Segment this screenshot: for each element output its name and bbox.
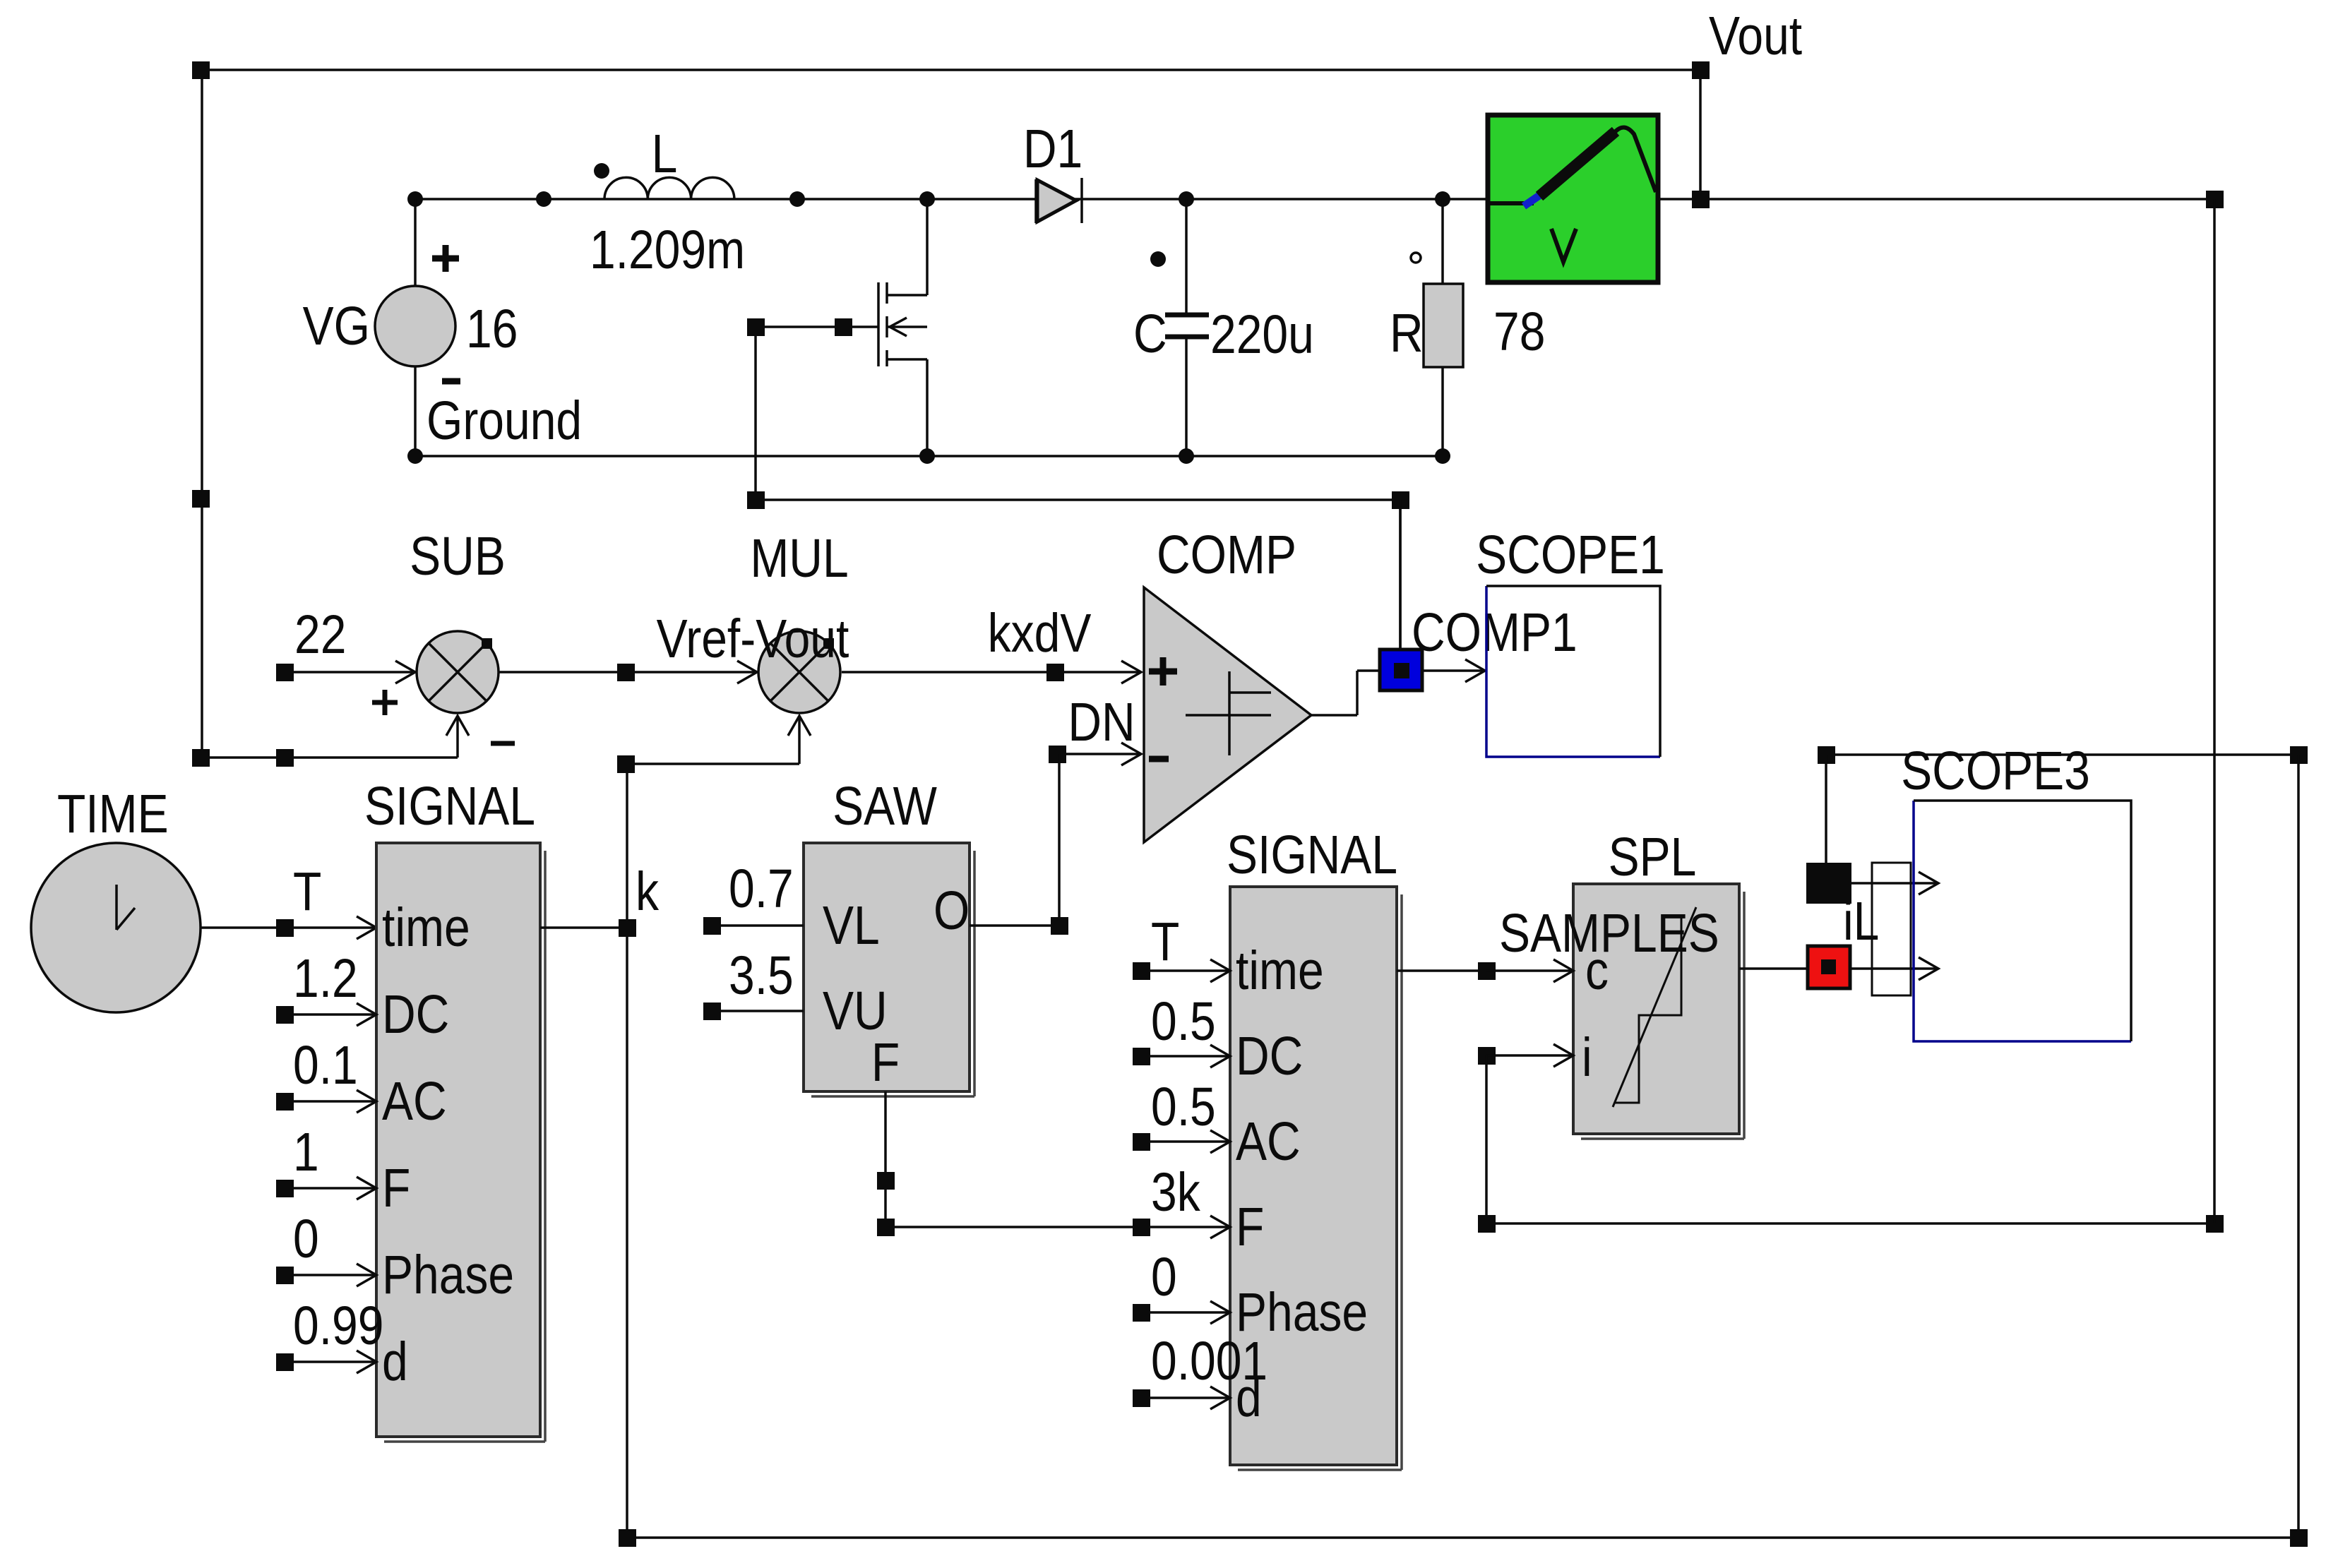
svg-text:time: time xyxy=(1236,940,1324,1001)
junction dot after inductor xyxy=(789,191,805,207)
svg-text:3.5: 3.5 xyxy=(729,945,794,1006)
svg-text:SCOPE1: SCOPE1 xyxy=(1476,525,1665,585)
block SPL xyxy=(1573,884,1744,1139)
multiplier MUL xyxy=(737,631,840,736)
svg-text:DC: DC xyxy=(382,984,449,1045)
svg-text:k: k xyxy=(636,861,660,922)
wire SIGNAL2 input d xyxy=(1133,1331,1268,1409)
connector COMP1 blue xyxy=(1380,500,1422,690)
wire SIGNAL1 input d xyxy=(276,1351,376,1373)
wire SIGNAL1 input F xyxy=(276,1177,376,1199)
wire k vertical xyxy=(626,764,628,1538)
svg-text:time: time xyxy=(382,897,470,958)
svg-text:Phase: Phase xyxy=(382,1245,514,1305)
comparator COMP xyxy=(1144,587,1311,842)
junction dot MOSFET source bottom xyxy=(919,448,935,464)
wire SPL input c xyxy=(1478,959,1573,982)
svg-text:0.5: 0.5 xyxy=(1151,1077,1216,1137)
svg-text:0.5: 0.5 xyxy=(1151,991,1216,1052)
junction dot main/VG xyxy=(407,191,423,207)
wire SIGNAL2 input Phase xyxy=(1133,1247,1230,1324)
svg-text:22: 22 xyxy=(294,604,346,665)
wire TIME to SIGNAL xyxy=(201,916,376,939)
svg-text:VL: VL xyxy=(823,895,880,956)
junction dot capacitor top xyxy=(1179,191,1194,207)
svg-text:TIME: TIME xyxy=(57,784,169,844)
junction dot before inductor xyxy=(536,191,551,207)
junction dot VG bottom xyxy=(407,448,423,464)
block SIGNAL 2 xyxy=(1227,825,1402,1470)
input bracket SCOPE3 xyxy=(1872,863,1911,995)
wire SAW output F xyxy=(877,1091,1141,1236)
wire Vout feedback to SUB minus xyxy=(192,717,458,767)
wire SIGNAL1 input AC xyxy=(276,1090,376,1113)
svg-text:Vref-Vout: Vref-Vout xyxy=(657,609,849,669)
svg-text:O: O xyxy=(934,880,970,941)
wire MUL to COMP plus xyxy=(842,661,1141,683)
wire SIGNAL2 input AC xyxy=(1133,1077,1230,1153)
svg-text:0: 0 xyxy=(1151,1247,1177,1307)
wire bottom rail y=646 xyxy=(415,455,1443,457)
oscilloscope SCOPE3 xyxy=(1901,741,2131,1041)
connector iL red xyxy=(1808,946,1850,988)
svg-text:3k: 3k xyxy=(1151,1162,1201,1223)
wire SCOPE3 ch1 y=1069 xyxy=(1818,746,2308,863)
wire SAW output O to DN xyxy=(970,917,1068,935)
wire SIGNAL2 input F xyxy=(1133,1162,1230,1238)
junction dot resistor bottom xyxy=(1435,448,1450,464)
wire COMP minus input xyxy=(1049,743,1141,926)
wire SUB to MUL xyxy=(499,664,755,681)
svg-text:i: i xyxy=(1582,1027,1592,1088)
junction dot resistor top xyxy=(1435,191,1450,207)
wire SAW input VL xyxy=(703,858,804,935)
wire 22 input xyxy=(276,604,413,681)
wire right outer vertical xyxy=(2297,755,2300,1538)
svg-text:COMP: COMP xyxy=(1157,525,1296,585)
junction dot MOSFET drain xyxy=(919,191,935,207)
svg-text:78: 78 xyxy=(1493,301,1545,362)
connector black xyxy=(1806,863,1851,904)
resistor R xyxy=(1390,199,1545,456)
svg-text:L: L xyxy=(652,124,678,184)
wire SPL input i xyxy=(1478,1044,1573,1067)
svg-text:SUB: SUB xyxy=(410,526,506,587)
svg-text:1.209m: 1.209m xyxy=(590,220,745,280)
wire red to SCOPE3 xyxy=(1850,957,1938,980)
svg-text:R: R xyxy=(1390,303,1424,364)
svg-text:SAMPLES: SAMPLES xyxy=(1499,903,1719,964)
svg-text:DC: DC xyxy=(1236,1026,1303,1087)
svg-text:MUL: MUL xyxy=(750,528,848,589)
svg-text:D1: D1 xyxy=(1023,119,1082,179)
junction dot capacitor bottom xyxy=(1179,448,1194,464)
svg-text:SPL: SPL xyxy=(1609,827,1697,887)
node Vout xyxy=(1692,6,1802,208)
block SIGNAL 1 xyxy=(364,776,545,1442)
svg-text:0.001: 0.001 xyxy=(1151,1331,1268,1392)
svg-text:0.1: 0.1 xyxy=(293,1035,358,1096)
wire SIGNAL1 output xyxy=(540,919,636,937)
wire SIGNAL1 input DC xyxy=(276,1003,376,1026)
wire SAW input VU xyxy=(703,945,804,1020)
wire MUL bottom input k xyxy=(617,717,799,773)
svg-text:AC: AC xyxy=(1236,1111,1301,1172)
svg-text:0.7: 0.7 xyxy=(729,858,794,919)
diode D1 xyxy=(1023,119,1082,223)
svg-text:Vout: Vout xyxy=(1709,6,1802,66)
svg-text:F: F xyxy=(1236,1197,1264,1257)
svg-text:kxdV: kxdV xyxy=(988,603,1092,664)
wire SIGNAL2 input time xyxy=(1133,911,1230,982)
block SAW xyxy=(804,843,974,1096)
wire gate net xyxy=(747,318,878,500)
svg-text:T: T xyxy=(1151,911,1179,972)
wire gate feedback y=708 xyxy=(747,491,1409,650)
svg-text:COMP1: COMP1 xyxy=(1412,602,1577,663)
svg-text:SCOPE3: SCOPE3 xyxy=(1901,741,2090,801)
wire COMP output xyxy=(1311,671,1380,715)
voltmeter V green scope icon xyxy=(1488,115,1658,282)
svg-text:16: 16 xyxy=(466,299,518,359)
node on left vertical xyxy=(192,490,210,508)
wire left feedback vertical xyxy=(201,70,203,758)
svg-text:1: 1 xyxy=(293,1122,319,1183)
svg-text:F: F xyxy=(382,1158,410,1219)
wire right vertical from main rail xyxy=(2213,199,2216,1223)
clock TIME xyxy=(31,784,201,1012)
svg-text:d: d xyxy=(382,1331,408,1392)
capacitor C xyxy=(1133,199,1314,456)
summer SUB xyxy=(372,631,515,743)
svg-text:Ground: Ground xyxy=(427,390,582,451)
svg-text:0: 0 xyxy=(293,1209,319,1269)
transistor M1 MOSFET xyxy=(878,199,927,456)
node top-left corner xyxy=(192,61,210,79)
svg-text:0.99: 0.99 xyxy=(293,1295,383,1356)
oscilloscope SCOPE1 xyxy=(1476,525,1665,757)
svg-text:C: C xyxy=(1133,304,1167,364)
svg-text:1.2: 1.2 xyxy=(293,948,358,1009)
wire black to SCOPE3 xyxy=(1851,872,1938,894)
svg-text:AC: AC xyxy=(382,1071,447,1132)
wire main rail y=282 xyxy=(415,198,1488,201)
voltage source VG xyxy=(303,199,518,456)
svg-text:VG: VG xyxy=(303,296,370,357)
svg-text:F: F xyxy=(871,1032,900,1093)
wire into SCOPE1 xyxy=(1422,659,1485,682)
svg-text:T: T xyxy=(293,861,321,922)
inductor L xyxy=(590,124,745,280)
wire SIGNAL1 input Phase xyxy=(276,1264,376,1286)
node right end of main rail xyxy=(2206,191,2224,208)
svg-text:SIGNAL: SIGNAL xyxy=(364,776,535,837)
svg-text:SAW: SAW xyxy=(833,776,937,837)
wire SPL i from right rail xyxy=(1478,1055,2224,1233)
svg-text:220u: 220u xyxy=(1210,304,1314,365)
wire Vout top rail xyxy=(201,68,1700,71)
wire SIGNAL2 input DC xyxy=(1133,991,1230,1067)
wire bottom return y=2178 xyxy=(619,1529,2308,1547)
wire SPL output to iL xyxy=(1739,967,1808,970)
wire SIGNAL2 output xyxy=(1397,969,1486,972)
svg-text:SIGNAL: SIGNAL xyxy=(1227,825,1397,885)
